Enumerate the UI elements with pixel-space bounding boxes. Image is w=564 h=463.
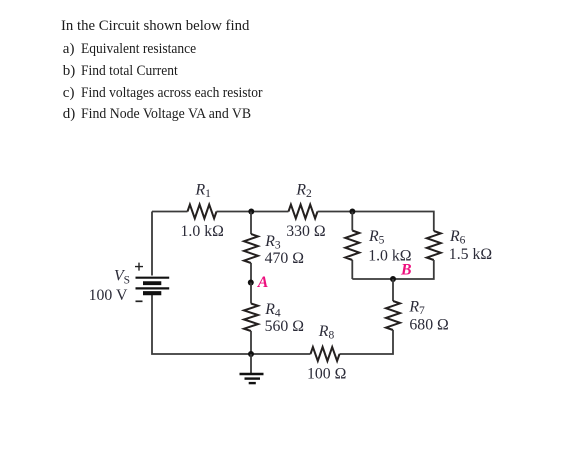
battery voltage source VS	[136, 278, 170, 294]
battery plus sign	[135, 263, 143, 271]
wire from battery positive terminal up the left side to top-left corner	[151, 212, 153, 276]
svg-text:1.0 kΩ: 1.0 kΩ	[181, 223, 224, 240]
wire R8 left lead to bottom-left corner and up to battery negative	[152, 295, 311, 355]
wire node B down to R7 top lead	[392, 279, 394, 301]
svg-text:680 Ω: 680 Ω	[409, 317, 448, 334]
label R2	[295, 181, 312, 200]
node A junction dot	[248, 280, 254, 286]
svg-text:A: A	[257, 274, 269, 291]
svg-text:R8: R8	[318, 323, 335, 342]
value 470 Ohm (R3)	[265, 250, 304, 267]
resistor R6	[427, 231, 441, 260]
svg-text:R5: R5	[368, 228, 385, 247]
label R3	[264, 233, 281, 252]
svg-text:R4: R4	[264, 301, 281, 320]
item a	[63, 42, 75, 57]
wire R5 bottom lead to parallel-loop bottom wire	[351, 260, 353, 279]
wire R1 right lead through node to R2 left lead	[217, 211, 289, 213]
wire R4 bottom lead to bottom junction	[250, 331, 252, 354]
wire R7 bottom lead to bottom-right corner and left to R8 right lead	[340, 330, 394, 354]
value 100 Ohm (R8)	[307, 366, 346, 383]
label VS	[114, 268, 130, 287]
item b	[63, 64, 76, 79]
ground	[240, 354, 264, 383]
wire R3 bottom lead to node A	[250, 263, 252, 283]
value 560 Ohm (R4)	[265, 318, 304, 335]
item d	[63, 107, 76, 122]
value 1.5 kOhm (R6)	[449, 246, 492, 263]
svg-text:100 V: 100 V	[89, 287, 128, 304]
svg-text:VS: VS	[114, 268, 130, 287]
problem statement line	[61, 19, 252, 34]
svg-text:R2: R2	[295, 181, 312, 200]
resistor R8	[311, 347, 340, 361]
resistor R2	[289, 205, 318, 219]
value 1.0 kOhm (R1)	[181, 223, 224, 240]
svg-text:470 Ω: 470 Ω	[265, 250, 304, 267]
label R5	[368, 228, 385, 247]
svg-text:R7: R7	[408, 299, 425, 318]
label R6	[449, 228, 466, 247]
resistor R5	[345, 231, 359, 261]
battery minus sign	[136, 300, 143, 302]
resistor R7	[386, 301, 400, 330]
value 100 V (source)	[89, 287, 128, 304]
svg-text:B: B	[400, 262, 412, 279]
junction node R2/R5/R6	[349, 209, 355, 215]
wire node A to R4 top lead	[250, 283, 252, 304]
resistor R4	[244, 304, 258, 332]
item c	[63, 86, 75, 101]
wire node down to R5 top lead	[351, 212, 353, 231]
svg-text:R1: R1	[195, 181, 212, 200]
wire node down to R3 top lead	[250, 212, 252, 235]
wire top-left corner to R1 left lead	[152, 211, 188, 213]
wire R2 right lead through node to top-right corner and down to R6	[318, 212, 434, 232]
value 680 Ohm (R7)	[409, 317, 448, 334]
svg-text:330 Ω: 330 Ω	[286, 223, 325, 240]
svg-text:100 Ω: 100 Ω	[307, 366, 346, 383]
wire R6 bottom lead down and left along loop bottom to R5	[352, 260, 434, 279]
label R1	[195, 181, 212, 200]
node B junction dot	[390, 276, 396, 282]
label R4	[264, 301, 281, 320]
resistor R3	[244, 234, 258, 263]
junction node R1/R2/R3	[248, 209, 254, 215]
svg-text:560 Ω: 560 Ω	[265, 318, 304, 335]
svg-text:1.5 kΩ: 1.5 kΩ	[449, 246, 492, 263]
bottom junction node (R4/ground/bottom wire)	[248, 351, 254, 357]
label R7	[408, 299, 425, 318]
svg-text:R6: R6	[449, 228, 466, 247]
value 330 Ohm (R2)	[286, 223, 325, 240]
label node B	[400, 262, 412, 279]
resistor R1	[188, 205, 217, 219]
svg-text:R3: R3	[264, 233, 281, 252]
label R8	[318, 323, 335, 342]
value 1.0 kOhm (R5)	[368, 247, 411, 264]
label node A	[257, 274, 269, 291]
